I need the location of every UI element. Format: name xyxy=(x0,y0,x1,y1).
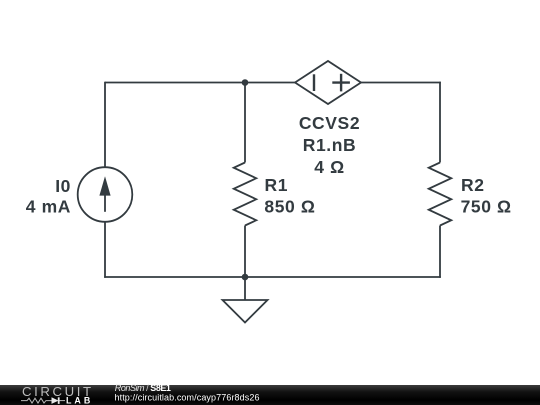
label CCVS2 value 4 ohm xyxy=(314,157,344,177)
svg-text:850 Ω: 850 Ω xyxy=(264,196,315,216)
svg-text:CCVS2: CCVS2 xyxy=(299,113,360,133)
wire R1 bottom vertical xyxy=(244,226,246,278)
ground xyxy=(223,277,268,323)
label CCVS2 name xyxy=(299,113,360,133)
svg-text:LAB: LAB xyxy=(66,396,93,405)
svg-text:750 Ω: 750 Ω xyxy=(461,196,512,216)
label I0 value 4 mA xyxy=(26,196,71,216)
footer CircuitLab logo xyxy=(21,384,94,405)
svg-text:I0: I0 xyxy=(55,176,71,196)
resistor R1 xyxy=(234,163,257,226)
label R1 value 850 ohm xyxy=(264,196,315,216)
label R2 value 750 ohm xyxy=(461,196,512,216)
wire bottom horizontal (ground net) xyxy=(104,276,441,278)
junction node bottom (wire dot) xyxy=(242,274,249,281)
logo wire with resistor and diode xyxy=(21,398,52,403)
wire left vertical upper xyxy=(104,82,106,167)
wire R2 top vertical xyxy=(439,82,441,163)
svg-text:http://circuitlab.com/cayp776r: http://circuitlab.com/cayp776r8ds26 xyxy=(115,392,260,402)
wire left vertical lower xyxy=(104,222,106,278)
label R1 name xyxy=(265,175,289,195)
label CCVS2 control R1.nB xyxy=(303,135,357,155)
svg-text:R2: R2 xyxy=(461,175,485,195)
wire top right from CCVS2 to right column xyxy=(361,82,441,84)
ccvs CCVS2 (diamond dependent source) xyxy=(295,61,361,104)
junction node top (wire dot) xyxy=(242,79,249,86)
footer bar xyxy=(0,385,540,405)
wire R1 top vertical xyxy=(244,83,246,163)
svg-text:R1.nB: R1.nB xyxy=(303,135,357,155)
label I0 name xyxy=(55,176,71,196)
resistor R2 xyxy=(429,163,452,226)
wire top horizontal (node A) xyxy=(105,82,295,84)
svg-text:4 mA: 4 mA xyxy=(26,196,71,216)
svg-text:4 Ω: 4 Ω xyxy=(314,157,344,177)
label R2 name xyxy=(461,175,485,195)
current source I0 xyxy=(78,167,133,222)
footer url xyxy=(115,392,260,402)
wire R2 bottom vertical xyxy=(439,226,441,278)
svg-text:R1: R1 xyxy=(265,175,289,195)
footer title RonSim / S8E1 xyxy=(115,383,171,393)
